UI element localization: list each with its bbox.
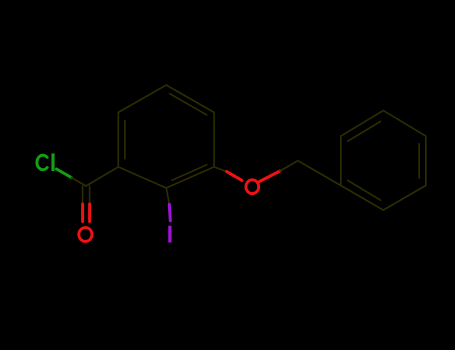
atom label Cl : letter l	[51, 153, 54, 171]
atom label Cl (chlorine, green) : letter C	[37, 155, 47, 169]
benzene ring 2 (benzyl phenyl) outline	[341, 111, 426, 211]
wire: bond CH2-phenyl ipso carbon	[298, 161, 341, 186]
wire: bond ring-O2 carbon half (dark)	[214, 167, 227, 172]
ring 1 aromatic inner line, bottom-right edge	[172, 165, 207, 181]
ring 2 aromatic inner line, bottom-left edge	[348, 180, 381, 200]
benzene ring 1 (central) outline	[118, 85, 214, 188]
wire: bond C1-ring carbon LL	[86, 167, 118, 186]
wire: bond Cl-C1 chlorine half (green)	[57, 169, 72, 178]
wire: bond ring-I carbon half (dark)	[166, 188, 169, 204]
wire: C1=O double bond oxygen halves (red)	[83, 204, 90, 222]
wire: bond O2-CH2 carbon half (dark)	[280, 161, 298, 171]
atom label O ether oxygen (red)	[246, 180, 259, 194]
ring 2 aromatic inner line, top-left edge	[348, 121, 381, 141]
atom label O carbonyl oxygen (red)	[79, 228, 92, 242]
ring 1 aromatic inner line, left edge	[124, 121, 126, 159]
wire: bond O2-CH2 oxygen half (red)	[260, 171, 281, 182]
ring 2 aromatic inner line, right edge	[418, 144, 420, 178]
wire: bond ring-O2 oxygen half (red)	[227, 172, 242, 181]
wire: bond ring-I iodine half (purple)	[169, 204, 170, 220]
ring 1 aromatic inner line, top-right edge	[170, 94, 207, 115]
wire: bond Cl-C1 carbon half (dark)	[71, 178, 86, 187]
atom label I iodine (purple)	[168, 226, 171, 243]
wire: C1=O double bond carbon halves (dark)	[83, 186, 90, 204]
